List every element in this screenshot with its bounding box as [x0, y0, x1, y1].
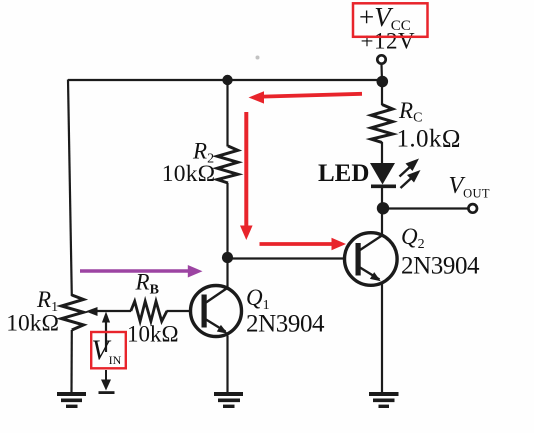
- Vcc terminal open circle: [377, 55, 385, 63]
- svg-text:2N3904: 2N3904: [246, 311, 325, 338]
- node Vout junction: [377, 202, 389, 214]
- transistor Q1: [191, 286, 242, 337]
- wire Q2 emitter to ground: [381, 284, 383, 393]
- transistor Q2: [345, 233, 398, 286]
- Vin up arrow: [102, 312, 110, 353]
- svg-text:+12V: +12V: [361, 29, 416, 54]
- node junction top of R2: [222, 75, 232, 85]
- resistor R2: [217, 146, 238, 183]
- node junction Vcc: [377, 76, 389, 88]
- wire left vertical rail: [68, 80, 72, 297]
- LED cathode bar: [371, 185, 396, 189]
- LED light arrow lower: [401, 170, 421, 188]
- Vin down arrow: [99, 370, 115, 393]
- svg-text:2N3904: 2N3904: [401, 253, 480, 280]
- box red around Vin: [91, 332, 126, 368]
- wire R2 branch from top rail: [226, 80, 228, 147]
- resistor RC: [371, 105, 392, 143]
- ground R1: [57, 394, 86, 406]
- wire node down to Q1 collector: [226, 258, 228, 289]
- wire RB to Q1 base: [167, 310, 193, 312]
- wire top horizontal rail: [68, 79, 382, 81]
- potentiometer R1: [62, 295, 84, 330]
- resistor RB: [131, 301, 167, 321]
- wire Vcc terminal to rail: [380, 65, 383, 82]
- red arrow into Q2 base (points right): [260, 238, 347, 251]
- ground Q1: [214, 394, 243, 406]
- LED light arrow upper: [400, 159, 420, 177]
- svg-text:10kΩ: 10kΩ: [6, 311, 59, 337]
- scan speck: [256, 56, 260, 60]
- wire Vout: [383, 207, 468, 209]
- svg-text:LED: LED: [318, 160, 369, 187]
- wire Vout node to Q2 collector: [381, 209, 383, 236]
- svg-text:10kΩ: 10kΩ: [127, 322, 179, 347]
- wire pot bottom to ground: [70, 330, 73, 392]
- red arrow current path top (points left): [249, 91, 363, 103]
- R1 wiper arrow: [86, 307, 99, 316]
- LED diode triangle: [370, 163, 395, 185]
- svg-text:1.0kΩ: 1.0kΩ: [397, 126, 461, 153]
- purple arrow signal path (points right): [80, 265, 203, 278]
- wire Q1 emitter to ground: [226, 336, 228, 393]
- ground Q2: [369, 394, 399, 406]
- wire Vcc junction down to Rc: [381, 82, 383, 106]
- box red around +Vcc: [353, 3, 428, 37]
- wire node to Q2 base: [228, 257, 346, 259]
- svg-text:10kΩ: 10kΩ: [162, 161, 216, 187]
- Vout terminal open circle: [468, 204, 477, 213]
- wire Rc to LED: [381, 142, 383, 164]
- wire wiper to RB: [96, 310, 131, 312]
- wire LED to Vout node: [381, 188, 383, 208]
- node R2/Q1 collector/Q2 base: [222, 252, 233, 263]
- wire R2 to node: [226, 183, 228, 258]
- red arrow current path down R2 side: [240, 112, 253, 240]
